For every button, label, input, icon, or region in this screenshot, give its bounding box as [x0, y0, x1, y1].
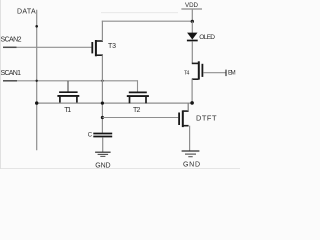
wire OLED cathode to T4 drain [191, 41, 193, 63]
junction dot VDD node [191, 20, 194, 23]
transistor T3 gate bar [91, 42, 93, 53]
transistor T2 right stub [145, 96, 147, 103]
svg-text:GND: GND [183, 162, 200, 169]
transistor T3 channel bar [95, 40, 97, 56]
transistor DTFT gate bar [178, 113, 180, 126]
ground under DTFT bar2 [185, 153, 196, 155]
svg-text:T2: T2 [133, 107, 140, 114]
transistor T3 source stub [96, 54, 103, 56]
svg-text:VDD: VDD [185, 2, 199, 9]
wire DATA vertical [36, 10, 38, 150]
junction dot row x DATA [35, 101, 38, 104]
junction dot SCAN1 x T3 source line [101, 80, 103, 82]
wire SCAN1 across [17, 80, 138, 82]
wire SCAN1 stub (dark) [3, 80, 17, 82]
junction dot on DATA line [35, 25, 38, 28]
wire T4 gate to EM terminal [203, 72, 226, 74]
diode OLED triangle [187, 33, 197, 40]
svg-text:SCAN2: SCAN2 [1, 36, 22, 43]
transistor T1 gate bar [59, 91, 78, 93]
svg-text:T3: T3 [108, 43, 116, 50]
junction dot SCAN1 x DATA [36, 80, 38, 82]
svg-text:T4: T4 [184, 71, 189, 77]
transistor T4 drain stub [192, 62, 199, 64]
junction dot row x T3 source line [101, 102, 104, 105]
wire T4 source down to storage node [191, 79, 193, 103]
svg-text:DATA: DATA [17, 8, 36, 15]
wire T3 drain up to top rail [101, 21, 103, 41]
faint scan artifact line [101, 12, 178, 14]
node EM terminal tick [225, 70, 227, 77]
transistor T2 channel bar [127, 95, 149, 97]
power VDD terminal bar [181, 8, 202, 10]
wire DTFT drain up to row [187, 103, 189, 111]
ground under DTFT bar3 [188, 156, 192, 158]
svg-text:GND: GND [95, 163, 110, 169]
svg-text:EM: EM [228, 69, 236, 76]
wire storage row (DATA to T4 source) [37, 102, 192, 104]
wire SCAN2 to T3 gate [17, 46, 92, 48]
wire VDD down to rail [191, 9, 193, 21]
ground under capacitor bar3 [100, 155, 105, 157]
capacitor C top plate [93, 133, 112, 135]
transistor T1 left stub [59, 96, 61, 103]
ground under capacitor bar1 [95, 151, 111, 153]
transistor DTFT source stub [183, 125, 189, 127]
transistor T1 channel bar [57, 95, 79, 97]
svg-text:C: C [88, 133, 93, 139]
svg-text:OLED: OLED [199, 34, 215, 41]
page edge bottom [0, 168, 240, 170]
transistor T1 right stub [76, 96, 78, 103]
page edge left [0, 0, 1, 169]
wire top rail to VDD [102, 20, 193, 22]
transistor T2 left stub [129, 96, 131, 103]
diode OLED cathode bar [187, 40, 198, 42]
wire SCAN2 stub (dark) [3, 46, 17, 48]
transistor T4 gate bar [201, 64, 203, 77]
transistor DTFT drain stub [183, 110, 189, 112]
wire VDD node to OLED anode [191, 21, 193, 33]
svg-text:SCAN1: SCAN1 [1, 70, 22, 77]
wire DTFT source down to ground [189, 126, 191, 151]
transistor T4 channel bar [198, 61, 200, 79]
transistor T2 gate bar [129, 91, 147, 93]
svg-text:T1: T1 [64, 107, 71, 114]
transistor T3 drain stub [96, 40, 103, 42]
wire SCAN1 down to T2 gate [137, 80, 139, 92]
transistor T4 source stub [192, 78, 199, 80]
wire gate node to DTFT gate [102, 117, 178, 119]
transistor T1 gate lead [67, 81, 69, 93]
ground under capacitor bar2 [98, 153, 109, 155]
junction dot row x T4 source [190, 101, 194, 105]
svg-text:DTFT: DTFT [196, 113, 217, 122]
wire T3 source down rail [101, 55, 103, 133]
transistor DTFT channel bar [182, 110, 184, 127]
capacitor C bottom plate [93, 136, 112, 138]
ground under DTFT bar1 [182, 150, 200, 152]
wire capacitor to ground [102, 137, 104, 152]
junction dot gate node [101, 116, 104, 119]
